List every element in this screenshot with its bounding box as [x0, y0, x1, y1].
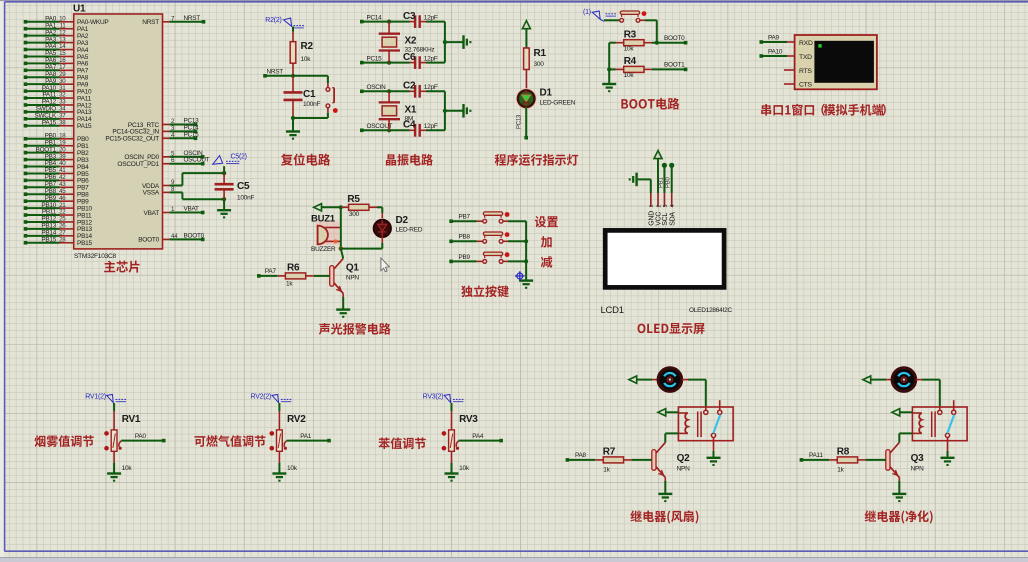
svg-text:12pF: 12pF	[424, 123, 438, 130]
svg-text:10k: 10k	[301, 56, 312, 63]
svg-text:12pF: 12pF	[424, 55, 438, 62]
svg-text:BOOT1: BOOT1	[664, 62, 685, 69]
svg-text:PC13: PC13	[517, 114, 523, 129]
svg-text:RV1: RV1	[122, 414, 141, 425]
svg-text:TXD: TXD	[799, 54, 812, 61]
svg-text:BUZZER: BUZZER	[311, 246, 336, 253]
svg-text:PA4: PA4	[472, 433, 484, 440]
svg-text:X1: X1	[405, 104, 417, 115]
svg-text:D1: D1	[540, 88, 553, 99]
svg-text:PA11: PA11	[809, 452, 823, 459]
svg-text:1k: 1k	[286, 281, 293, 288]
svg-text:PB7: PB7	[459, 214, 471, 221]
svg-text:Q3: Q3	[911, 453, 925, 464]
svg-text:PB8: PB8	[459, 234, 471, 241]
svg-text:RV2(2): RV2(2)	[251, 394, 272, 401]
svg-text:1: 1	[649, 205, 655, 208]
svg-text:RV3(2): RV3(2)	[423, 394, 444, 401]
svg-text:R1: R1	[534, 48, 547, 59]
svg-text:PC15: PC15	[184, 131, 200, 138]
svg-text:LED-RED: LED-RED	[396, 227, 423, 234]
svg-text:R7: R7	[603, 447, 616, 458]
svg-text:OSCOUT_PD1: OSCOUT_PD1	[117, 161, 159, 168]
svg-text:R2: R2	[301, 41, 314, 52]
svg-text:PA15: PA15	[42, 119, 57, 126]
svg-text:BUZ1: BUZ1	[311, 214, 336, 225]
svg-text:100nF: 100nF	[303, 101, 320, 108]
svg-text:BOOT0: BOOT0	[138, 237, 159, 244]
svg-text:PA1: PA1	[300, 433, 312, 440]
svg-text:32.768KHz: 32.768KHz	[405, 47, 435, 54]
svg-text:SDA: SDA	[669, 212, 676, 226]
svg-text:10k: 10k	[287, 465, 298, 472]
svg-text:PB9: PB9	[459, 254, 471, 261]
svg-text:PA8: PA8	[575, 452, 587, 459]
svg-text:12pF: 12pF	[424, 14, 438, 21]
svg-text:8M: 8M	[405, 115, 414, 122]
svg-text:BOOT0: BOOT0	[664, 35, 685, 42]
svg-text:RV1(2): RV1(2)	[85, 394, 106, 401]
svg-text:R8: R8	[837, 447, 850, 458]
svg-text:3: 3	[663, 205, 669, 208]
svg-text:10k: 10k	[122, 465, 133, 472]
svg-text:C1: C1	[303, 89, 316, 100]
svg-text:OSCIN: OSCIN	[367, 84, 387, 91]
svg-text:PB15: PB15	[41, 236, 56, 243]
svg-text:300: 300	[534, 61, 545, 68]
svg-text:PC15-OSC32_OUT: PC15-OSC32_OUT	[105, 136, 159, 143]
svg-text:C3: C3	[403, 11, 416, 22]
svg-text:R2(2): R2(2)	[265, 17, 281, 24]
svg-text:PA9: PA9	[768, 34, 780, 41]
svg-text:LCD1: LCD1	[601, 305, 624, 316]
svg-text:(1): (1)	[583, 9, 591, 16]
svg-text:4: 4	[670, 205, 676, 208]
svg-text:LED-GREEN: LED-GREEN	[540, 100, 576, 107]
svg-text:28: 28	[59, 236, 66, 243]
svg-text:PA15: PA15	[77, 123, 92, 130]
svg-text:PA7: PA7	[265, 268, 277, 275]
svg-text:STM32F103C8: STM32F103C8	[74, 253, 117, 260]
svg-text:OLED12864I2C: OLED12864I2C	[689, 307, 732, 314]
svg-text:BOOT0: BOOT0	[184, 232, 205, 239]
svg-text:OSCOUT: OSCOUT	[184, 157, 210, 164]
svg-text:NRST: NRST	[184, 15, 201, 22]
svg-text:10k: 10k	[624, 46, 635, 53]
svg-text:1k: 1k	[603, 467, 610, 474]
svg-text:RXD: RXD	[799, 40, 813, 47]
svg-text:NPN: NPN	[677, 466, 691, 473]
svg-text:PB0: PB0	[666, 176, 672, 188]
svg-text:Q1: Q1	[346, 262, 360, 273]
svg-text:RTS: RTS	[799, 68, 812, 75]
svg-text:100nF: 100nF	[237, 195, 254, 202]
svg-text:VBAT: VBAT	[144, 210, 160, 217]
svg-text:300: 300	[349, 211, 360, 218]
svg-text:10k: 10k	[459, 465, 470, 472]
svg-text:1k: 1k	[837, 467, 844, 474]
svg-text:38: 38	[59, 119, 66, 126]
svg-text:NRST: NRST	[142, 19, 159, 26]
svg-text:D2: D2	[396, 215, 409, 226]
svg-text:PC14: PC14	[367, 14, 383, 21]
svg-text:X2: X2	[405, 36, 417, 47]
svg-text:C5(2): C5(2)	[231, 154, 247, 161]
svg-text:R5: R5	[347, 194, 360, 205]
svg-text:C2: C2	[403, 81, 416, 92]
svg-text:Q2: Q2	[677, 453, 691, 464]
svg-text:NRST: NRST	[267, 68, 284, 75]
svg-text:PB1: PB1	[658, 176, 664, 188]
svg-text:SCL: SCL	[662, 213, 669, 226]
svg-text:NPN: NPN	[911, 466, 925, 473]
svg-text:PA10: PA10	[768, 48, 783, 55]
svg-text:GND: GND	[648, 211, 655, 226]
svg-text:PA0: PA0	[135, 433, 147, 440]
svg-text:U1: U1	[73, 4, 86, 15]
svg-text:10k: 10k	[624, 72, 635, 79]
svg-text:C5: C5	[237, 181, 250, 192]
svg-text:NPN: NPN	[346, 275, 360, 282]
svg-text:CTS: CTS	[799, 81, 813, 88]
svg-text:RV3: RV3	[459, 414, 478, 425]
svg-text:R4: R4	[624, 56, 637, 67]
svg-text:PB15: PB15	[77, 240, 93, 247]
svg-text:VSSA: VSSA	[143, 190, 160, 197]
svg-text:VBAT: VBAT	[184, 206, 200, 213]
svg-text:R6: R6	[287, 263, 300, 274]
svg-text:RV2: RV2	[287, 414, 306, 425]
svg-text:2: 2	[656, 205, 662, 208]
svg-text:R3: R3	[624, 30, 637, 41]
svg-text:PC15: PC15	[367, 55, 383, 62]
svg-text:12pF: 12pF	[424, 84, 438, 91]
